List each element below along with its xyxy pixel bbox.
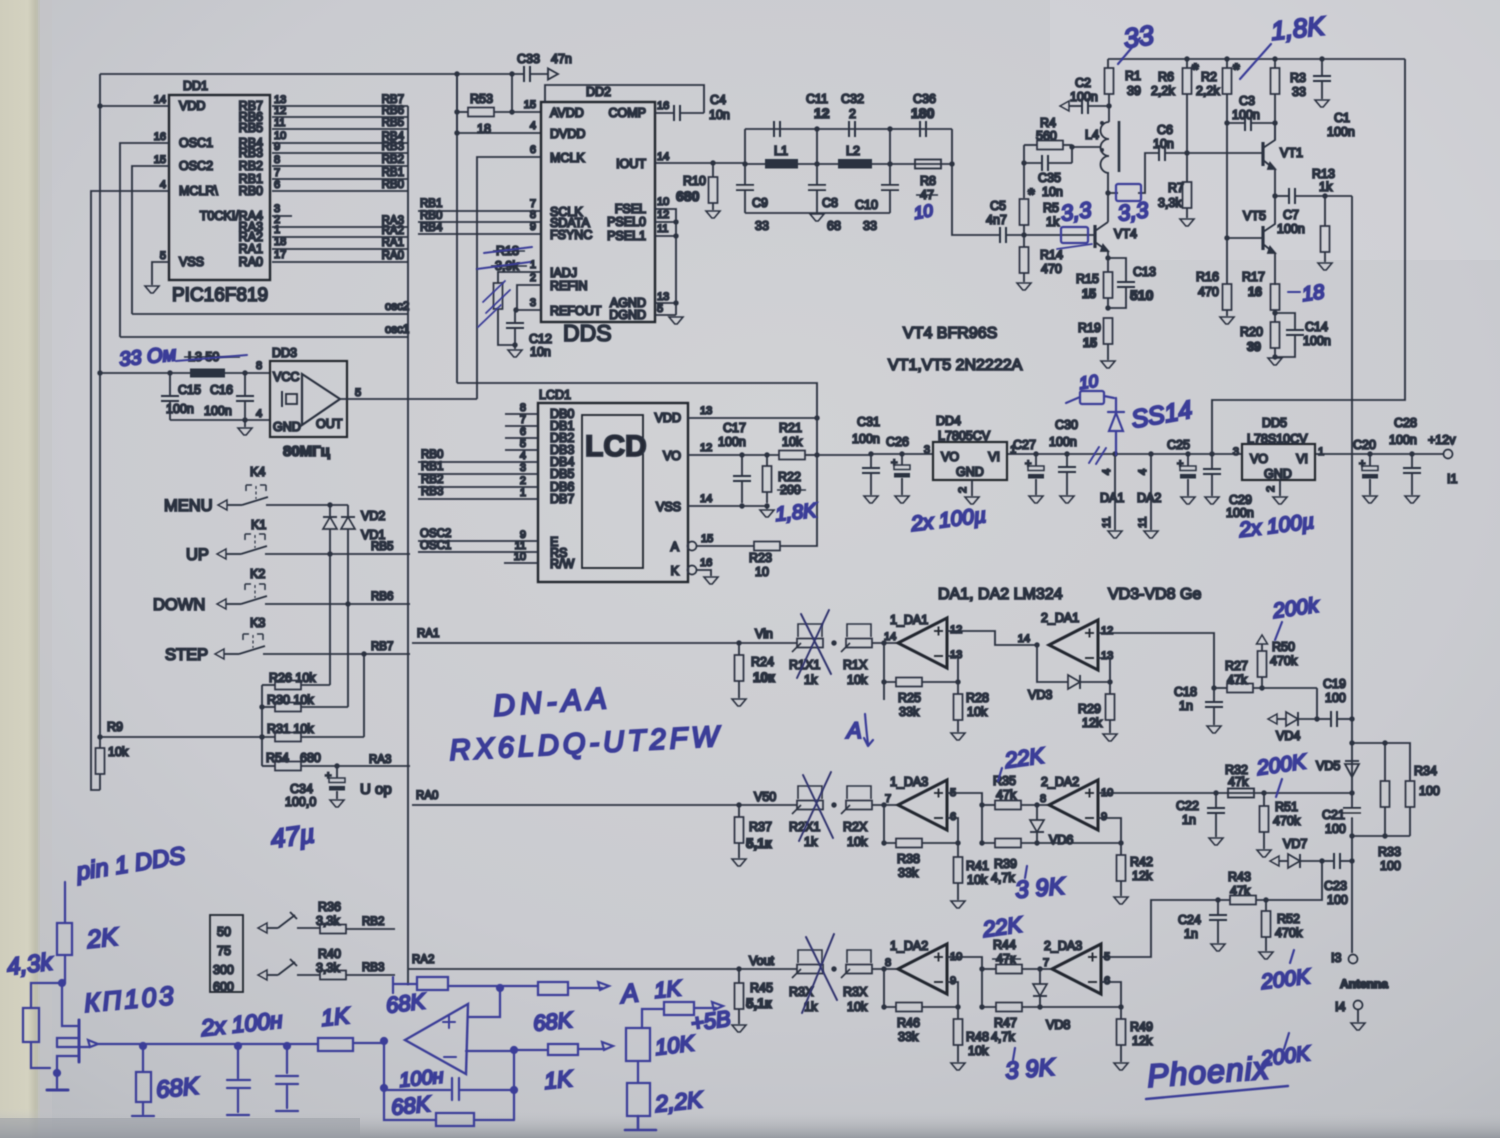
svg-text:I1: I1 [1447, 472, 1457, 486]
resistor R52 [1263, 897, 1268, 902]
LC filter: wire top rail [745, 128, 952, 130]
trimmer R3X1 (cancelled) [792, 950, 823, 978]
strike marks over R18 [477, 247, 532, 269]
svg-text:6: 6 [950, 811, 956, 823]
svg-text:VT1: VT1 [1280, 146, 1303, 160]
svg-text:R41: R41 [966, 859, 989, 873]
svg-text:11: 11 [1101, 517, 1113, 528]
svg-text:COMP: COMP [609, 106, 647, 120]
svg-text:VD4: VD4 [1276, 729, 1300, 743]
ground R28 [951, 733, 965, 740]
svg-text:R33: R33 [1378, 845, 1401, 859]
resistor R39 [995, 839, 1021, 848]
svg-text:1: 1 [1318, 446, 1324, 458]
capacitor C24 [1215, 897, 1220, 902]
blue resistor 2,2K [637, 1061, 639, 1083]
hand-drawn resistor over feedback wire [1116, 184, 1141, 201]
svg-text:300: 300 [213, 963, 234, 977]
wire DGND pin5 [655, 314, 676, 316]
svg-text:18: 18 [274, 236, 286, 248]
cross out R3X1 [802, 934, 837, 1013]
svg-text:VO: VO [1250, 452, 1268, 466]
ground DD3 [244, 420, 246, 427]
svg-text:10k: 10k [968, 1044, 989, 1058]
resistor R2 [1226, 59, 1228, 68]
svg-text:1: 1 [274, 224, 280, 236]
resistor R4 [1024, 144, 1037, 146]
wire L4 tap to R4/C35 [1072, 145, 1101, 163]
wire 2_DA2 out to R32 row [1098, 792, 1352, 794]
svg-text:11: 11 [1137, 517, 1149, 528]
svg-text:75: 75 [217, 944, 231, 958]
svg-text:2_DA3: 2_DA3 [1044, 939, 1082, 953]
capacitor C18 [1211, 685, 1216, 690]
svg-text:DD4: DD4 [936, 414, 961, 428]
svg-text:VD3-VD8 Ge: VD3-VD8 Ge [1108, 586, 1201, 603]
resistor R50 to supply [1259, 685, 1264, 690]
svg-text:C26: C26 [886, 435, 909, 449]
svg-text:R37: R37 [749, 820, 772, 834]
svg-text:470k: 470k [1270, 654, 1298, 668]
node VT4 collector feedback [1105, 190, 1110, 195]
svg-text:RB1: RB1 [421, 461, 443, 473]
svg-text:C23: C23 [1324, 879, 1347, 893]
wire DB5 net RB1 [418, 473, 538, 475]
svg-text:RB2: RB2 [382, 154, 404, 166]
net RB5 [327, 551, 332, 556]
net RA0 / V50 row [412, 804, 797, 806]
svg-text:R51: R51 [1275, 800, 1298, 814]
ground I4 [1351, 1023, 1365, 1030]
svg-text:RB1: RB1 [420, 198, 442, 210]
svg-text:DDS: DDS [563, 320, 612, 346]
svg-text:R7: R7 [1168, 181, 1184, 195]
resistor R42 [1120, 843, 1122, 855]
svg-text:1_DA1: 1_DA1 [890, 613, 928, 627]
svg-text:5: 5 [520, 438, 526, 450]
svg-text:R17: R17 [1242, 270, 1265, 284]
capacitor C2 [1060, 101, 1069, 111]
node top wire junction [454, 71, 459, 76]
svg-text:10: 10 [912, 201, 934, 223]
resistor R17 [1271, 284, 1280, 310]
wire 1_DA1 pin13 feedback [947, 656, 958, 682]
svg-text:2,2k: 2,2k [1151, 84, 1175, 98]
connector arrow right [548, 69, 558, 80]
svg-text:33: 33 [1292, 85, 1306, 99]
net RB7 [361, 651, 366, 656]
transistor VT1 [1261, 142, 1264, 166]
svg-text:2: 2 [849, 107, 856, 121]
svg-text:RB2: RB2 [362, 916, 384, 928]
svg-text:MCLR\: MCLR\ [179, 184, 218, 198]
blue trimmer 10K [626, 1028, 650, 1061]
svg-text:IOUT: IOUT [616, 157, 646, 171]
wire MCLR pin4 long vertical [91, 191, 169, 790]
wire OSC1 pin16 [120, 143, 169, 337]
diode VD6 [1036, 805, 1038, 820]
wire +10V top rail [1108, 58, 1405, 60]
svg-text:VD8: VD8 [1046, 1018, 1070, 1032]
svg-text:470: 470 [1198, 285, 1219, 299]
svg-text:DA1: DA1 [1100, 491, 1124, 505]
svg-text:1k: 1k [1046, 215, 1060, 229]
svg-text:VD5: VD5 [1316, 759, 1340, 773]
svg-text:510: 510 [1130, 287, 1154, 303]
blue output 68K with A arrow [538, 982, 568, 995]
wire FSEL/PSEL bus [655, 209, 676, 315]
inductor L4 with core [1101, 122, 1109, 173]
resistor R21 [742, 454, 779, 456]
resistor R51 [1261, 790, 1266, 795]
svg-text:680: 680 [676, 188, 700, 204]
wire 2_DA1 pin13 [1098, 658, 1110, 682]
resistor R34 [1406, 781, 1415, 807]
svg-text:9: 9 [274, 141, 280, 153]
svg-text:R3: R3 [1290, 71, 1306, 85]
svg-text:+: + [891, 457, 897, 469]
svg-text:5: 5 [355, 387, 361, 399]
capacitor C22 [1213, 790, 1218, 795]
wire E net OSC2 [418, 540, 538, 542]
wire RS net OSC1 [418, 551, 538, 553]
svg-text:DOWN: DOWN [153, 596, 205, 614]
wire AVDD vertical from top wire [511, 74, 513, 112]
svg-text:C6: C6 [1157, 123, 1173, 137]
svg-text:RA0: RA0 [416, 790, 438, 802]
wire RB7 net [272, 105, 408, 107]
ground C31 [864, 496, 878, 503]
svg-text:R47: R47 [994, 1016, 1017, 1030]
capacitor C26 polarized [899, 451, 904, 456]
svg-text:C17: C17 [723, 421, 746, 435]
ground C28 [1405, 496, 1419, 503]
svg-text:VT5: VT5 [1243, 209, 1266, 223]
svg-text:C19: C19 [1323, 677, 1346, 691]
ground R41 [951, 901, 965, 908]
oscillator module DD3 80MHz [256, 346, 361, 460]
svg-text:RA1: RA1 [239, 242, 263, 256]
wire COMP pin16 [655, 112, 674, 114]
wire VSS pin 14 [688, 505, 767, 507]
svg-text:R49: R49 [1130, 1020, 1153, 1034]
microcontroller DD1 PIC16F819 [154, 79, 270, 306]
svg-text:VCC: VCC [273, 370, 299, 384]
svg-text:R28: R28 [966, 691, 989, 705]
svg-text:RB3: RB3 [362, 962, 384, 974]
svg-text:14: 14 [154, 94, 166, 106]
svg-text:9: 9 [1101, 811, 1107, 823]
wire osc1 net [120, 336, 408, 338]
cross out R2X1 [799, 772, 833, 841]
resistor R45 [738, 969, 740, 983]
svg-text:3: 3 [1233, 446, 1239, 458]
resistor R1 [1107, 59, 1109, 68]
svg-text:C15: C15 [178, 383, 201, 397]
capacitor C12 [514, 310, 516, 323]
impedance selector box 50/75/300/600 [210, 915, 243, 992]
svg-text:47n: 47n [551, 52, 572, 66]
svg-text:10k: 10k [847, 835, 868, 849]
wire R/W [504, 562, 538, 564]
svg-text:R36: R36 [318, 900, 341, 914]
svg-text:1,8K: 1,8K [774, 500, 819, 526]
svg-text:100n: 100n [1327, 125, 1355, 139]
svg-text:68K: 68K [532, 1007, 575, 1036]
node 2_DA2 input pin8 [1034, 802, 1039, 807]
svg-text:L78S10CV: L78S10CV [1247, 432, 1308, 446]
ground R42 [1114, 897, 1128, 904]
capacitor C19 [1317, 718, 1331, 720]
svg-text:8: 8 [256, 360, 262, 372]
wire DB1 [505, 425, 538, 427]
svg-text:560: 560 [1036, 129, 1057, 143]
svg-text:L7805CV: L7805CV [938, 429, 991, 443]
svg-text:C28: C28 [1394, 416, 1417, 430]
resistor R8 [915, 160, 941, 169]
svg-text:15: 15 [524, 99, 536, 111]
svg-text:680: 680 [300, 751, 321, 765]
svg-text:5,1к: 5,1к [746, 996, 772, 1011]
svg-text:DB7: DB7 [550, 492, 574, 506]
svg-text:R9: R9 [107, 720, 123, 734]
resistor R22 [764, 452, 769, 457]
svg-text:12: 12 [657, 209, 669, 221]
svg-text:18: 18 [477, 122, 491, 136]
wire VT4 base [1024, 234, 1094, 236]
svg-text:C5: C5 [990, 199, 1006, 213]
svg-text:VO: VO [663, 449, 681, 463]
svg-text:PSEL1: PSEL1 [607, 229, 646, 243]
svg-text:2K: 2K [85, 923, 121, 954]
svg-text:4: 4 [1101, 469, 1113, 475]
wire filter bottom rail [745, 212, 890, 214]
svg-text:12: 12 [950, 624, 962, 636]
svg-text:R6: R6 [1158, 70, 1174, 84]
wire +5V to DD3 [100, 372, 270, 374]
svg-text:R1X: R1X [843, 658, 868, 672]
svg-text:U op: U op [360, 781, 392, 798]
wire RA0 net [272, 261, 408, 263]
wire FSYNC RB4 [418, 233, 541, 235]
svg-text:IADJ: IADJ [550, 266, 577, 280]
svg-text:REFIN: REFIN [550, 279, 588, 293]
svg-text:C36: C36 [913, 92, 936, 106]
svg-text:8: 8 [885, 957, 891, 969]
svg-text:+: + [1359, 458, 1365, 470]
wire R33/R34 bottom rail [1352, 835, 1410, 837]
svg-text:15: 15 [154, 154, 166, 166]
ground R51 [1257, 850, 1271, 857]
svg-text:VT1,VT5 2N2222A: VT1,VT5 2N2222A [888, 357, 1023, 374]
node 1_DA3 input pin7 [872, 804, 898, 806]
svg-text:C25: C25 [1167, 438, 1190, 452]
svg-text:R20: R20 [1240, 325, 1263, 339]
svg-text:RB0: RB0 [420, 210, 442, 222]
svg-text:16: 16 [657, 100, 669, 112]
resistor R37 [738, 805, 740, 817]
svg-text:4: 4 [256, 408, 262, 420]
svg-text:R3X: R3X [843, 985, 868, 999]
svg-text:47µ: 47µ [269, 818, 317, 854]
svg-text:C3: C3 [1239, 94, 1255, 108]
node C34 [334, 763, 339, 768]
svg-text:R46: R46 [897, 1016, 920, 1030]
svg-text:MENU: MENU [164, 497, 213, 515]
svg-text:C13: C13 [1133, 265, 1156, 279]
svg-text:R22: R22 [778, 470, 801, 484]
switch S1 [258, 923, 267, 933]
wire R39 feedback row [982, 805, 995, 843]
wire filter verticals [745, 129, 890, 213]
svg-text:C22: C22 [1176, 799, 1199, 813]
svg-text:VDD: VDD [655, 411, 681, 425]
svg-text:2: 2 [1265, 486, 1277, 492]
svg-text:OSC1: OSC1 [179, 136, 213, 150]
resistor R27 [1214, 687, 1227, 689]
svg-text:+: + [1025, 458, 1031, 470]
resistor R10 [712, 163, 714, 177]
blue resistor 68K shunt [142, 1046, 144, 1072]
ground C12 [514, 345, 516, 349]
svg-text:4: 4 [520, 450, 526, 462]
node VDD junction [97, 103, 102, 108]
svg-text:DD1: DD1 [183, 79, 208, 93]
wire AGND pin13 [655, 302, 676, 304]
ground R10 [706, 211, 720, 218]
svg-text:47k: 47k [1227, 673, 1248, 687]
svg-text:2,2K: 2,2K [653, 1086, 705, 1117]
svg-text:RB3: RB3 [382, 141, 404, 153]
ground R45 [732, 1025, 746, 1032]
svg-text:15: 15 [701, 533, 713, 545]
svg-text:33: 33 [1122, 20, 1156, 54]
svg-text:VD7: VD7 [1283, 837, 1307, 851]
resistor R15 [1107, 258, 1109, 272]
resistor R5 [1020, 199, 1029, 225]
svg-text:R50: R50 [1272, 640, 1295, 654]
svg-text:RB5: RB5 [382, 117, 404, 129]
svg-text:6: 6 [274, 179, 280, 191]
svg-text:*: * [1192, 60, 1199, 79]
svg-text:K1: K1 [251, 518, 266, 532]
wire 1_DA2 out step [947, 957, 982, 969]
capacitor C27 polarized [1033, 451, 1038, 456]
svg-text:C31: C31 [857, 415, 880, 429]
svg-text:4: 4 [530, 120, 536, 132]
wire DD3 OUT to DD2 MCLK [340, 398, 477, 400]
svg-text:100n: 100n [1303, 334, 1331, 348]
svg-text:C34: C34 [290, 782, 313, 796]
wire R47 feedback row [982, 969, 996, 1007]
svg-text:REFOUT: REFOUT [550, 304, 602, 318]
svg-text:10k: 10k [967, 705, 988, 719]
svg-text:VSS: VSS [656, 500, 681, 514]
svg-text:OSC2: OSC2 [420, 528, 451, 540]
svg-text:600: 600 [213, 980, 234, 994]
svg-text:C10: C10 [855, 198, 878, 212]
svg-text:16: 16 [154, 131, 166, 143]
svg-text:R19: R19 [1078, 321, 1101, 335]
op-amp supply stub DA1 pin4/11 [1112, 451, 1117, 456]
wire VT1 emitter long vertical to antenna bus [1351, 196, 1353, 953]
svg-text:C35: C35 [1038, 171, 1061, 185]
capacitor C25 polarized [1185, 451, 1190, 456]
svg-text:R31 10k: R31 10k [267, 722, 314, 736]
svg-text:470k: 470k [1273, 814, 1301, 828]
capacitor C17 [739, 452, 744, 457]
svg-text:100,0: 100,0 [285, 795, 316, 809]
svg-text:39: 39 [1247, 340, 1261, 354]
svg-text:A: A [671, 540, 680, 554]
svg-text:13: 13 [700, 405, 712, 417]
wire DB6 net RB2 [418, 486, 538, 488]
svg-text:R5: R5 [1043, 201, 1059, 215]
svg-text:5: 5 [657, 303, 663, 315]
terminal I3 antenna [1349, 955, 1358, 964]
svg-text:R4: R4 [1040, 116, 1056, 130]
svg-text:FSEL: FSEL [615, 202, 646, 216]
svg-text:DD2: DD2 [586, 85, 611, 99]
svg-text:2: 2 [530, 272, 536, 284]
svg-text:K: K [671, 564, 680, 578]
svg-text:I3: I3 [1331, 951, 1341, 965]
ground R52 [1259, 952, 1273, 959]
wire LCD VDD top frame [457, 383, 817, 453]
resistor R20 [1271, 322, 1280, 348]
ground R19 [1101, 361, 1115, 368]
wire frame left vertical [99, 74, 101, 737]
svg-text:Vin: Vin [755, 627, 773, 641]
wire 1_DA1 out to 2_DA1 [947, 631, 1037, 645]
svg-text:RA0: RA0 [382, 250, 404, 262]
blue strike over L3 choke label [176, 355, 247, 361]
op-amp 2_DA1 [1034, 642, 1039, 647]
ground C18 [1207, 726, 1221, 733]
svg-text:100n: 100n [718, 435, 746, 449]
svg-text:C4: C4 [710, 93, 726, 107]
ground C26 [895, 496, 909, 503]
svg-text:10: 10 [1078, 371, 1100, 393]
cross out R1X1 [797, 610, 837, 1013]
svg-text:18: 18 [1301, 281, 1326, 306]
op-amp 1_DA3 [898, 780, 947, 830]
node VT4 base [1021, 232, 1026, 237]
svg-text:VDD: VDD [179, 99, 205, 113]
svg-text:5,1к: 5,1к [746, 836, 772, 851]
svg-text:V50: V50 [754, 790, 776, 804]
svg-text:GND: GND [956, 465, 984, 479]
resistor R53 [457, 111, 468, 113]
svg-text:OSC1: OSC1 [420, 540, 451, 552]
ground K [704, 577, 718, 584]
svg-text:10к: 10к [753, 670, 775, 685]
svg-text:*: * [1233, 60, 1240, 79]
node VT4 emitter [1105, 255, 1110, 260]
svg-text:RB4: RB4 [420, 222, 443, 234]
svg-text:DA1, DA2 LM324: DA1, DA2 LM324 [938, 586, 1063, 603]
blue 1K after minus output [466, 1050, 548, 1051]
resistor R13 [1324, 196, 1326, 226]
ground C30 [1060, 496, 1074, 503]
svg-text:15: 15 [1082, 287, 1096, 301]
ground R49 [1114, 1063, 1128, 1070]
transistor VT4 [1093, 225, 1096, 248]
wire REFIN pin2 [517, 285, 541, 310]
svg-text:13: 13 [950, 649, 962, 661]
double slash on rail [1089, 447, 1106, 464]
ground R48 [951, 1063, 965, 1070]
